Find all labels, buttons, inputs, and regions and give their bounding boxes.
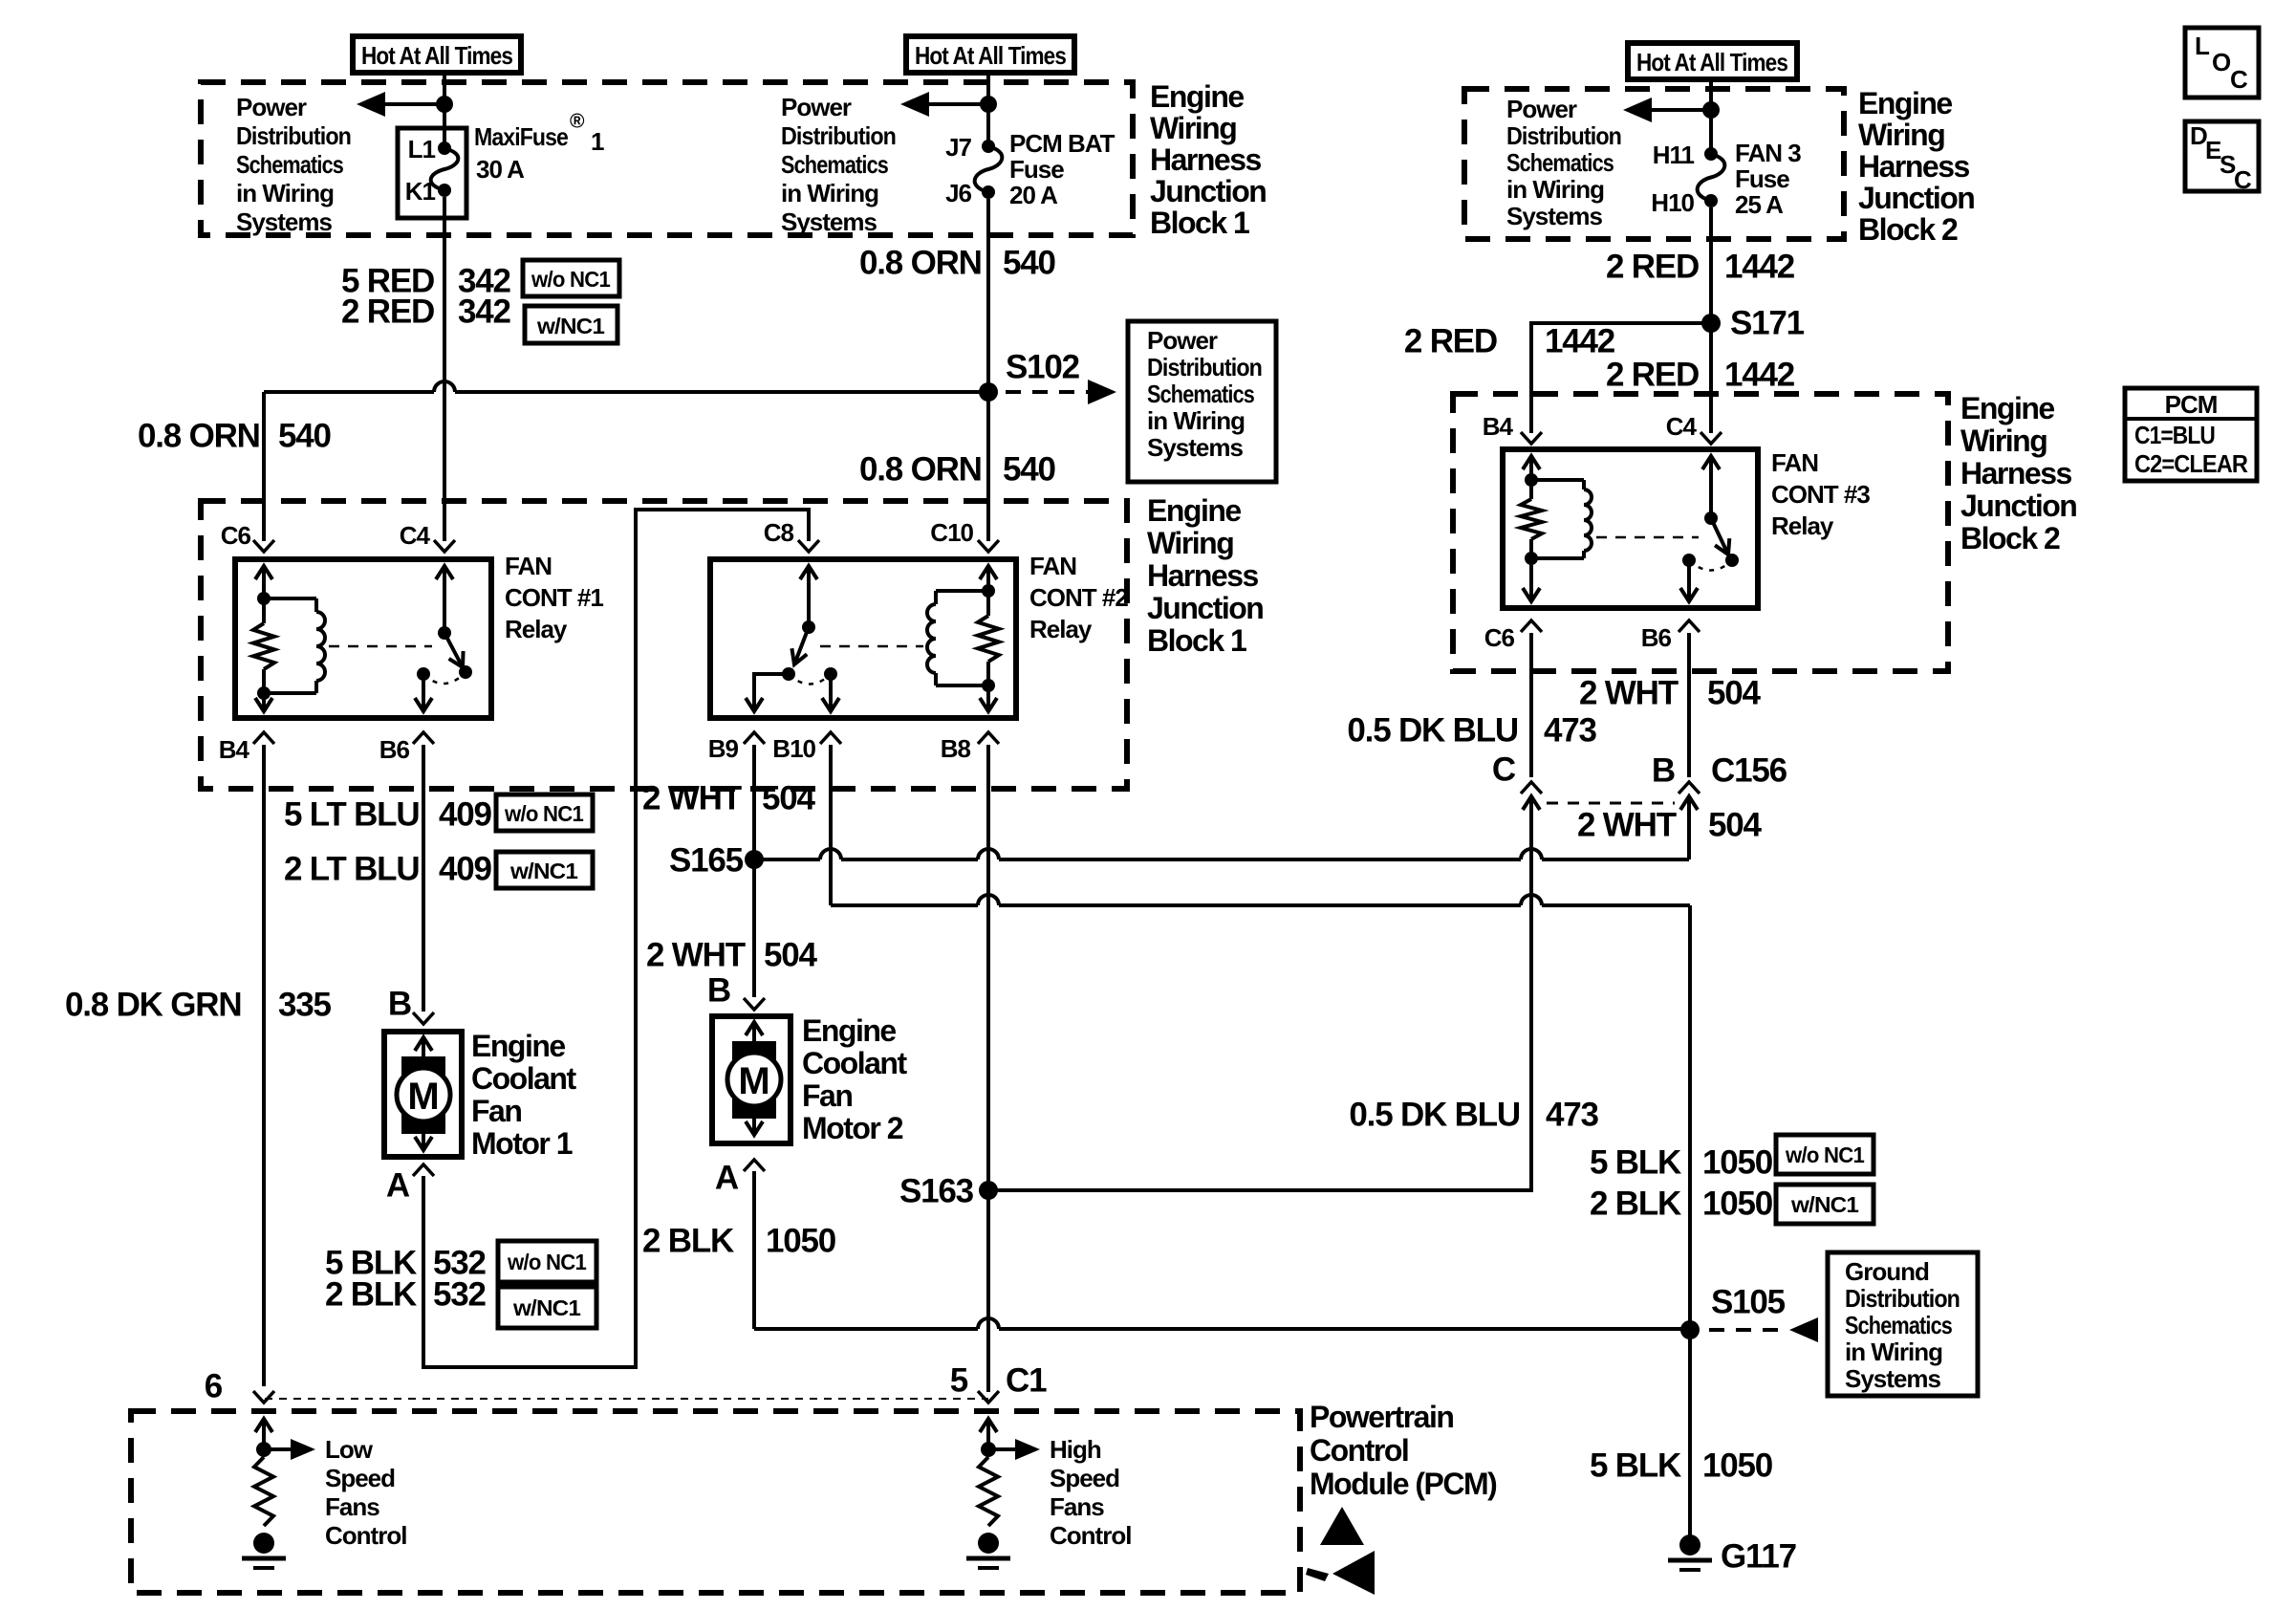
svg-text:Junction: Junction: [1960, 489, 2076, 523]
svg-text:Module (PCM): Module (PCM): [1310, 1467, 1497, 1501]
note box w/o NC1 (1050): [1776, 1135, 1874, 1174]
svg-text:w/NC1: w/NC1: [536, 314, 605, 338]
power label "Hot At All Times" (feed 2): [906, 36, 1074, 73]
motor M1 case: [384, 1032, 462, 1157]
label: 2 RED 342 (w/NC1): [341, 294, 511, 331]
wire: LT BLU 409 relay K1 pin B6 to motor M1 pin B: [422, 745, 425, 1012]
svg-text:K1: K1: [405, 177, 436, 206]
svg-text:1050: 1050: [1702, 1144, 1773, 1182]
fuse F2 PCM BAT element J7-J6: [975, 140, 1003, 199]
relay K2 switch pivot: [802, 620, 815, 634]
svg-text:Wiring: Wiring: [1960, 424, 2047, 458]
label: 2 RED 1442 (lower): [1606, 357, 1795, 394]
relay K2 coil-resistor top junction: [982, 584, 995, 598]
svg-text:1050: 1050: [1702, 1186, 1773, 1223]
relay K3 control dashed link: [1596, 536, 1699, 539]
svg-text:2 BLK: 2 BLK: [325, 1276, 417, 1314]
relay K3 switch input arrow (C4): [1702, 456, 1720, 518]
label: 0.8 ORN 540 (left branch): [138, 418, 332, 455]
wire: battery feed into FAN 3 fuse: [1709, 80, 1713, 149]
svg-text:Junction: Junction: [1150, 174, 1266, 208]
svg-text:5: 5: [950, 1362, 968, 1400]
svg-text:Power: Power: [1506, 95, 1577, 123]
svg-text:B: B: [1652, 752, 1675, 790]
motor M1 bottom arrow: [415, 1132, 432, 1150]
relay K1 coil input arrow (C6): [255, 566, 272, 598]
svg-text:Systems: Systems: [781, 207, 877, 236]
wire: ORN 540 fuse F2 output through S102 to relay K2 pin C10: [986, 199, 990, 541]
svg-text:2 RED: 2 RED: [1606, 357, 1699, 394]
pin C4 connector of relay K1: [400, 521, 455, 552]
pin label B (C156): [1652, 752, 1675, 790]
svg-text:Systems: Systems: [1506, 202, 1602, 230]
svg-text:Control: Control: [1050, 1521, 1131, 1550]
svg-text:Powertrain: Powertrain: [1310, 1400, 1453, 1434]
relay K1 name FAN CONT #1 Relay: [505, 552, 603, 643]
svg-text:Distribution: Distribution: [1845, 1284, 1960, 1313]
svg-text:Schematics: Schematics: [236, 150, 343, 179]
relay K2 switch travel arc: [789, 674, 831, 685]
reference box LOC: [2185, 28, 2259, 98]
svg-text:in Wiring: in Wiring: [1147, 406, 1245, 435]
connector C1 dashed line across PCM pins: [265, 1398, 988, 1400]
label: 2 LT BLU 409 (w/NC1): [284, 851, 492, 888]
relay K2 switch input arrow (C8): [800, 566, 817, 627]
svg-text:342: 342: [458, 294, 511, 331]
power label "Hot At All Times" (feed 3): [1628, 43, 1797, 79]
relay K3 switch fixed contact: [1682, 554, 1696, 567]
value label MaxiFuse(R) 1 30 A: [474, 111, 604, 185]
svg-text:w/NC1: w/NC1: [1790, 1192, 1859, 1217]
svg-text:540: 540: [1003, 451, 1056, 489]
wire: link motor M1 pin A to relay K2 pin C8: [423, 510, 809, 1367]
relay K2 rest contact output arrow (B10): [822, 674, 839, 711]
svg-text:504: 504: [762, 780, 816, 817]
svg-text:Junction: Junction: [1147, 591, 1263, 625]
relay K2 resistor: [978, 591, 999, 685]
svg-text:Engine: Engine: [802, 1013, 896, 1048]
svg-text:Fans: Fans: [325, 1492, 379, 1521]
svg-text:L1: L1: [408, 135, 436, 163]
relay K1 switch arm tip contact: [459, 665, 472, 679]
arrow: S105 reference to ground distribution schematics: [1709, 1317, 1818, 1342]
svg-text:Engine: Engine: [1960, 391, 2054, 425]
motor M1 top feed arrow: [415, 1037, 432, 1061]
pin B6 connector of relay K3: [1641, 620, 1700, 652]
wire: battery feed into PCM BAT fuse: [986, 73, 990, 141]
pin label L1: [408, 135, 436, 163]
arrow: feed 1 to power distribution: [357, 92, 444, 117]
note box: power distribution schematics (S102): [1128, 321, 1276, 482]
fuse F1 MaxiFuse 1 housing: [398, 128, 466, 218]
label: 2 WHT 504 (motor M2 feed): [646, 937, 818, 974]
relay K3 coil: [1531, 480, 1592, 558]
svg-text:J7: J7: [945, 133, 971, 162]
svg-text:B4: B4: [219, 735, 250, 764]
label: 2 BLK 1050 (w/NC1): [1590, 1186, 1773, 1223]
svg-text:Motor 1: Motor 1: [471, 1126, 573, 1161]
relay K1 switch travel arc: [423, 672, 466, 684]
note box w/o NC1 (342): [523, 260, 619, 296]
svg-text:Control: Control: [325, 1521, 406, 1550]
motor M2 upper brush: [732, 1041, 776, 1068]
svg-text:2 RED: 2 RED: [341, 294, 434, 331]
motor M2 case: [712, 1016, 791, 1143]
wire: BLK 1050 S105 to ground G117: [1688, 1330, 1692, 1537]
relay K1 coil-resistor top junction: [257, 592, 271, 605]
svg-text:5 BLK: 5 BLK: [1590, 1447, 1681, 1485]
svg-text:C10: C10: [930, 518, 973, 547]
svg-text:Distribution: Distribution: [781, 121, 896, 150]
label: 2 RED 1442 (upper): [1606, 249, 1795, 286]
ESD sensitivity symbol: [1306, 1507, 1375, 1595]
arrow: S102 reference to power distribution schematics: [1006, 380, 1116, 404]
svg-text:Relay: Relay: [1029, 615, 1093, 643]
connector C156 pin B halves: [1679, 782, 1700, 857]
wire: WHT 504 relay K2 pin B9 to S165: [752, 745, 756, 859]
pin A connector of motor M2: [715, 1160, 765, 1197]
note box: ground distribution schematics (S105): [1828, 1252, 1978, 1396]
junction S165: [745, 850, 764, 869]
svg-text:Speed: Speed: [325, 1464, 395, 1492]
svg-text:2 WHT: 2 WHT: [1577, 807, 1677, 844]
motor M1 lower brush: [401, 1107, 445, 1134]
svg-text:2 WHT: 2 WHT: [1579, 675, 1679, 712]
value label PCM BAT Fuse 20 A: [1009, 129, 1116, 209]
svg-text:Distribution: Distribution: [1147, 353, 1262, 381]
note: High Speed Fans Control: [1050, 1435, 1131, 1550]
svg-text:Hot At All Times: Hot At All Times: [915, 41, 1066, 70]
PCM high speed pull-up resistor: [979, 1457, 998, 1526]
svg-text:Harness: Harness: [1858, 149, 1970, 184]
pin A connector of motor M1: [386, 1164, 434, 1205]
note box w/NC1 (532): [498, 1287, 596, 1328]
relay K1 coil output arrow (B4): [255, 693, 272, 711]
relay K3 switch travel arc: [1689, 560, 1732, 571]
wire: WHT 504 S165 to connector C156 pin B: [754, 808, 1689, 859]
pin B10 connector of relay K2: [772, 732, 841, 763]
svg-text:C156: C156: [1711, 752, 1787, 790]
connector C156 mating dashed line: [1547, 802, 1675, 805]
label: 2 BLK 532 (w/NC1): [325, 1276, 487, 1314]
pin B4 connector of relay K1: [219, 732, 274, 764]
svg-text:B10: B10: [772, 734, 815, 763]
pin C6 connector of relay K1: [221, 521, 274, 552]
svg-text:Motor 2: Motor 2: [802, 1111, 903, 1145]
pin B connector of motor M1: [388, 986, 434, 1025]
wire: DK BLU 473 relay K3 pin C6 to connector C156 pin C: [1529, 633, 1533, 777]
svg-text:B9: B9: [708, 734, 739, 763]
relay K3 switch arm tip contact: [1725, 554, 1739, 567]
label: 0.8 ORN 540 (upper): [859, 245, 1056, 282]
svg-text:6: 6: [205, 1368, 223, 1405]
junction block 2 (fuse section) dashed box: [1464, 89, 1844, 239]
relay K2 control dashed link: [820, 645, 923, 648]
motor M2 name Engine Coolant Fan Motor 2: [802, 1013, 907, 1145]
svg-text:Fan: Fan: [471, 1094, 521, 1128]
motor M2 top feed arrow: [746, 1022, 763, 1046]
label: 0.5 DK BLU 473 (lower): [1349, 1097, 1598, 1134]
label: 2 BLK 1050 (motor M2 ground): [642, 1223, 836, 1260]
svg-text:Engine: Engine: [471, 1029, 565, 1063]
svg-text:Harness: Harness: [1147, 558, 1259, 593]
svg-text:C6: C6: [1484, 623, 1515, 652]
label: 2 WHT 504 (below C156): [1577, 807, 1763, 844]
svg-text:2 WHT: 2 WHT: [642, 780, 742, 817]
svg-text:1442: 1442: [1724, 249, 1795, 286]
svg-text:Fuse: Fuse: [1735, 164, 1789, 193]
svg-text:Block 1: Block 1: [1150, 206, 1249, 240]
svg-text:Schematics: Schematics: [1147, 380, 1254, 408]
pin label J6: [945, 179, 971, 207]
svg-text:Schematics: Schematics: [781, 150, 888, 179]
arrow: feed 3 to power distribution: [1623, 98, 1711, 122]
title: Engine Wiring Harness Junction Block 1 (fuse section): [1150, 79, 1266, 240]
PCM pin 6 input arrow: [255, 1419, 272, 1449]
svg-text:S165: S165: [669, 842, 744, 880]
svg-text:S102: S102: [1006, 349, 1080, 386]
svg-text:B6: B6: [1641, 623, 1672, 652]
wire: BLK 1050 motor M2 pin A to S105: [754, 1171, 1690, 1329]
svg-text:Power: Power: [1147, 326, 1218, 355]
svg-text:FAN: FAN: [1029, 552, 1076, 580]
svg-text:Schematics: Schematics: [1506, 148, 1614, 177]
pin label C (C156): [1492, 751, 1516, 789]
svg-text:FAN: FAN: [1771, 448, 1818, 477]
label: 2 RED 1442 (branch): [1404, 323, 1615, 360]
value label FAN 3 Fuse 25 A: [1735, 139, 1801, 219]
svg-text:C4: C4: [400, 521, 431, 550]
label: 5 RED 342 (w/o NC1): [341, 263, 511, 300]
motor M1 upper brush: [401, 1056, 445, 1083]
svg-text:Low: Low: [325, 1435, 374, 1464]
relay K1 coil: [264, 598, 325, 693]
svg-text:504: 504: [1707, 675, 1762, 712]
junction: feed 1 tap: [436, 96, 453, 113]
svg-text:409: 409: [439, 851, 492, 888]
title: Engine Wiring Harness Junction Block 2 (fuse section): [1858, 86, 1974, 247]
svg-text:CONT #2: CONT #2: [1029, 583, 1128, 612]
svg-text:Systems: Systems: [236, 207, 332, 236]
junction: feed 2 tap: [980, 96, 997, 113]
relay K3 coil-resistor bottom junction: [1525, 552, 1538, 565]
svg-text:O: O: [2212, 48, 2231, 76]
svg-text:B: B: [388, 986, 411, 1023]
pin B connector of motor M2: [707, 972, 765, 1011]
pin C6 connector of relay K3: [1484, 620, 1542, 652]
svg-text:in Wiring: in Wiring: [1845, 1338, 1942, 1366]
svg-text:w/NC1: w/NC1: [512, 1295, 581, 1320]
svg-text:C1=BLU: C1=BLU: [2134, 421, 2215, 449]
pin C8 connector of relay K2: [764, 518, 819, 552]
svg-text:w/NC1: w/NC1: [509, 859, 578, 883]
svg-text:B8: B8: [941, 734, 971, 763]
pin B6 connector of relay K1: [379, 732, 434, 764]
relay K1 switch pivot: [438, 626, 451, 640]
svg-text:Power: Power: [781, 93, 852, 121]
pin 5 / C1 connector of PCM: [950, 1362, 1047, 1403]
svg-text:Junction: Junction: [1858, 181, 1974, 215]
fuse F3 FAN 3 element H11-H10: [1698, 147, 1725, 207]
power label "Hot At All Times" (feed 1): [353, 36, 521, 73]
relay K3 switch pivot: [1704, 511, 1718, 525]
junction block 1 (relay section) dashed box: [201, 501, 1127, 789]
svg-text:C: C: [2230, 65, 2248, 94]
label: 5 BLK 532 (w/o NC1): [325, 1245, 487, 1282]
wire: DK BLU 473 S163 to connector C156 pin C: [988, 815, 1531, 1190]
svg-text:2 WHT: 2 WHT: [646, 937, 746, 974]
svg-text:2 BLK: 2 BLK: [1590, 1186, 1681, 1223]
relay K3 FAN CONT #3 case: [1503, 449, 1758, 608]
relay K1 switch arm: [444, 633, 464, 667]
note box w/NC1 (409): [496, 852, 593, 888]
svg-text:0.8 DK GRN: 0.8 DK GRN: [65, 987, 241, 1024]
relay K3 coil input arrow (B4): [1523, 456, 1540, 480]
svg-text:30 A: 30 A: [476, 155, 525, 184]
svg-text:2 RED: 2 RED: [1606, 249, 1699, 286]
svg-text:in Wiring: in Wiring: [1506, 175, 1604, 204]
svg-text:473: 473: [1544, 712, 1597, 750]
note: power distribution schematics (block 2): [1506, 95, 1621, 230]
svg-text:Hot At All Times: Hot At All Times: [361, 41, 512, 70]
relay K1 resistor: [253, 598, 274, 693]
svg-text:H11: H11: [1653, 141, 1695, 169]
svg-text:w/o NC1: w/o NC1: [504, 801, 584, 826]
wire: WHT 504 relay K3 pin B6 to connector C156 pin B: [1687, 633, 1691, 777]
pin C10 connector of relay K2: [930, 518, 999, 552]
svg-text:High: High: [1050, 1435, 1101, 1464]
svg-text:in Wiring: in Wiring: [236, 179, 334, 207]
arrow: low speed fans control signal: [264, 1439, 315, 1460]
svg-text:S163: S163: [899, 1173, 974, 1210]
node label S105: [1711, 1284, 1786, 1321]
relay K1 control dashed link: [329, 645, 432, 648]
motor M1 name Engine Coolant Fan Motor 1: [471, 1029, 576, 1161]
svg-text:C2=CLEAR: C2=CLEAR: [2134, 449, 2248, 478]
svg-text:Block 2: Block 2: [1960, 521, 2060, 555]
svg-text:Wiring: Wiring: [1150, 111, 1236, 145]
label: 2 WHT 504 (relay K3 B6): [1579, 675, 1762, 712]
connector label C156: [1711, 752, 1787, 790]
junction block 1 (fuse section) dashed box: [201, 82, 1133, 235]
svg-text:PCM BAT: PCM BAT: [1009, 129, 1116, 158]
pin B9 connector of relay K2: [708, 732, 765, 763]
relay K2 coil input arrow (C10): [980, 566, 997, 591]
svg-text:w/o NC1: w/o NC1: [507, 1250, 587, 1274]
relay K1 switch output arrow (B6): [415, 674, 432, 711]
relay K2 switch arm: [791, 627, 809, 664]
svg-text:C6: C6: [221, 521, 251, 550]
junction block 2 (relay section) dashed box: [1453, 394, 1948, 671]
pin B4 connector of relay K3: [1483, 412, 1542, 444]
relay K2 switch rest contact (B10 side): [824, 667, 837, 681]
svg-text:A: A: [386, 1167, 410, 1205]
svg-text:Distribution: Distribution: [236, 121, 351, 150]
svg-text:Fan: Fan: [802, 1078, 852, 1113]
label: 0.5 DK BLU 473 (upper): [1347, 712, 1596, 750]
label: 2 WHT 504 (B9): [642, 780, 816, 817]
title: Engine Wiring Harness Junction Block 1 (relay section): [1147, 493, 1263, 658]
note box w/o NC1 (532): [498, 1241, 596, 1282]
svg-text:J6: J6: [945, 179, 971, 207]
svg-text:1050: 1050: [1702, 1447, 1773, 1485]
svg-text:335: 335: [278, 987, 332, 1024]
svg-text:PCM: PCM: [2165, 390, 2218, 419]
svg-text:C: C: [1492, 751, 1516, 789]
svg-text:Coolant: Coolant: [802, 1046, 907, 1080]
pin label H10: [1651, 188, 1694, 217]
svg-text:Harness: Harness: [1960, 456, 2072, 490]
svg-text:®: ®: [570, 111, 585, 133]
svg-text:CONT #3: CONT #3: [1771, 480, 1870, 509]
note: power distribution schematics (block 1 right): [781, 93, 896, 236]
svg-text:Fuse: Fuse: [1009, 155, 1064, 184]
svg-text:Control: Control: [1310, 1433, 1408, 1468]
svg-text:in Wiring: in Wiring: [781, 179, 878, 207]
svg-text:H10: H10: [1651, 188, 1694, 217]
junction: feed 3 tap: [1702, 101, 1720, 119]
junction S105: [1680, 1320, 1700, 1339]
svg-text:0.5 DK BLU: 0.5 DK BLU: [1349, 1097, 1520, 1134]
wire: RED 1442 fuse F3 output through S171 to relay K3 pin C4: [1709, 207, 1713, 433]
wire: RED 1442 branch from S171 to relay K3 pin B4: [1531, 323, 1711, 433]
wire: relay K2 pin B10 to ground bus: [831, 745, 1690, 1327]
note box w/NC1 (1050): [1776, 1185, 1874, 1224]
pin label J7: [945, 133, 971, 162]
svg-text:2 LT BLU: 2 LT BLU: [284, 851, 419, 888]
svg-text:Ground: Ground: [1845, 1257, 1929, 1286]
svg-text:2 RED: 2 RED: [1404, 323, 1497, 360]
relay K1 FAN CONT #1 case: [235, 559, 491, 718]
node label S102: [1006, 349, 1080, 386]
svg-text:C4: C4: [1666, 412, 1698, 441]
svg-text:M: M: [738, 1060, 769, 1102]
label: 0.8 ORN 540 (lower): [859, 451, 1056, 489]
svg-text:CONT #1: CONT #1: [505, 583, 603, 612]
svg-text:1442: 1442: [1724, 357, 1795, 394]
wire: RED 342 fuse F1 output to relay K1 pin C4: [443, 197, 446, 541]
arrow: high speed fans control signal: [988, 1439, 1040, 1460]
reference box DESC: [2185, 121, 2259, 194]
pin B8 connector of relay K2: [941, 732, 999, 763]
PCM low speed pull-up resistor: [254, 1457, 273, 1526]
note box w/o NC1 (409): [496, 794, 593, 831]
title: Powertrain Control Module (PCM): [1310, 1400, 1497, 1501]
svg-text:Block 1: Block 1: [1147, 623, 1246, 658]
note: power distribution schematics (block 1 left): [236, 93, 351, 236]
svg-text:0.5 DK BLU: 0.5 DK BLU: [1347, 712, 1518, 750]
title: Engine Wiring Harness Junction Block 2 (relay section): [1960, 391, 2076, 555]
svg-text:Engine: Engine: [1858, 86, 1952, 120]
PCM high speed control node: [981, 1442, 996, 1457]
svg-text:409: 409: [439, 796, 492, 834]
relay K3 coil-resistor top junction: [1525, 473, 1538, 487]
relay K1 switch input arrow (C4): [436, 566, 453, 633]
relay K2 FAN CONT #2 case: [710, 559, 1016, 718]
relay K2 switch fixed contact (B9 side): [782, 667, 795, 681]
relay K2 coil: [927, 591, 988, 685]
motor M2 armature circle: [727, 1053, 781, 1106]
svg-text:504: 504: [764, 937, 818, 974]
PCM low speed control node: [256, 1442, 271, 1457]
relay K3 switch output arrow (B6): [1680, 560, 1698, 601]
svg-text:Harness: Harness: [1150, 142, 1262, 177]
svg-text:M: M: [407, 1076, 439, 1118]
svg-text:Speed: Speed: [1050, 1464, 1119, 1492]
svg-text:1050: 1050: [766, 1223, 836, 1260]
relay K3 coil output arrow (C6): [1523, 558, 1540, 601]
svg-text:Block 2: Block 2: [1858, 212, 1958, 247]
